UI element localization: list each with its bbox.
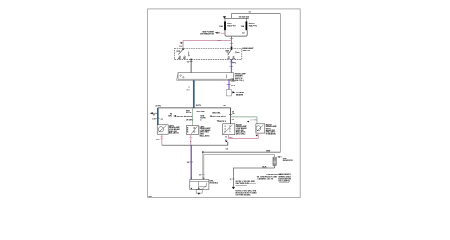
- resistor DRL: [273, 155, 293, 166]
- connector to high beams: [226, 90, 244, 97]
- svg-text:RESISTOR: RESISTOR: [283, 160, 293, 162]
- wire DK BLU dimmer low-beam output: [186, 80, 195, 108]
- svg-text:BALLAST): BALLAST): [169, 132, 179, 135]
- svg-text:HDLP FU: HDLP FU: [227, 25, 236, 27]
- annotation W/O DRL: [197, 111, 227, 121]
- svg-text:DAYTIME RUN: DAYTIME RUN: [236, 182, 250, 185]
- svg-text:HI BEAMS): HI BEAMS): [266, 132, 276, 135]
- svg-text:50 30A 30A: 50 30A 30A: [239, 16, 250, 19]
- svg-text:CAMARO 3.8L V6: CAMARO 3.8L V6: [257, 177, 274, 180]
- svg-text:BALLAST): BALLAST): [200, 134, 210, 137]
- wire LT GRN branch: [231, 117, 258, 124]
- svg-text:HID LAMPS): HID LAMPS): [278, 179, 290, 182]
- switch outputs: [190, 59, 232, 61]
- wire L3 ground drop: [225, 135, 229, 142]
- wire PPL to DRL module: [187, 145, 193, 179]
- wire resistor to ground run: [230, 165, 275, 187]
- svg-text:W/O DRL: W/O DRL: [212, 113, 221, 115]
- svg-text:MODULE: MODULE: [210, 182, 219, 184]
- wire fuse bottom rail: [225, 30, 247, 36]
- wire switch to dimmer left: [187, 59, 193, 72]
- svg-text:HDLP FU: HDLP FU: [249, 25, 258, 27]
- switch left contacts: [176, 48, 189, 60]
- svg-text:BEAMS: BEAMS: [236, 93, 244, 96]
- headlamp switch S1 box: [174, 47, 254, 59]
- wire LT GRN to left low beam: [192, 108, 194, 125]
- wire PPL dimmer high-beam output: [227, 79, 237, 90]
- wire PNK to switch: [179, 40, 232, 49]
- fuse F2: [241, 18, 258, 30]
- svg-text:ORN: ORN: [266, 151, 271, 153]
- legend right: [257, 173, 292, 182]
- wire ground bus left lamps: [162, 141, 228, 146]
- wire module line2: [204, 154, 275, 156]
- annotation W/ DRL: [161, 110, 194, 121]
- wire right main vertical: [279, 14, 281, 153]
- svg-text:LT GRN: LT GRN: [250, 119, 257, 121]
- wire pink ground bus right: [229, 137, 259, 139]
- wire module feed line1: [202, 149, 280, 154]
- svg-text:NOTE 2: NOTE 2: [219, 121, 227, 123]
- wire right lamp drop: [229, 108, 235, 124]
- node branch to power distribution: [200, 31, 225, 35]
- DRL module M1: [190, 180, 219, 190]
- wire L4 ground drop: [256, 133, 259, 139]
- fuse F1: [219, 18, 236, 30]
- svg-text:ON THIS MODEL: ON THIS MODEL: [236, 194, 252, 196]
- lamp L2 connector: [187, 126, 212, 138]
- wire low beam bus: [155, 105, 230, 108]
- dimmer switch S2 slab: [177, 73, 247, 82]
- wire PPL switch to dimmer: [230, 59, 237, 72]
- module input arrows: [190, 178, 205, 180]
- lamp L1 left headlamp: [157, 125, 180, 135]
- wire L1 ground drop: [156, 134, 163, 145]
- svg-text:15A: 15A: [241, 25, 245, 28]
- svg-text:W/ DRL MODULE: W/ DRL MODULE: [177, 116, 193, 118]
- note text block lower: [236, 181, 258, 197]
- border frame: [148, 9, 301, 198]
- module ground leg: [191, 188, 203, 195]
- wire feed to headlamp switch: [230, 36, 233, 49]
- wire battery feed top: [231, 12, 280, 14]
- lamp L3 right low beam: [223, 124, 248, 136]
- svg-text:BLK: BLK: [262, 166, 267, 168]
- wire L2 ground drop: [189, 135, 192, 146]
- wire left lamp drop: [152, 108, 159, 125]
- ground G1: [232, 187, 235, 189]
- svg-text:15A: 15A: [219, 25, 223, 28]
- svg-text:SWITCH: SWITCH: [242, 50, 250, 52]
- svg-text:W/O DRL MOD: W/O DRL MOD: [212, 116, 226, 118]
- switch right contacts: [225, 48, 240, 60]
- lamp L4 right high beam: [256, 124, 277, 136]
- node branch left: [150, 112, 158, 116]
- svg-text:20 TN: 20 TN: [155, 105, 161, 107]
- svg-text:W/O DRL: W/O DRL: [197, 111, 206, 113]
- svg-text:(ON COL.): (ON COL.): [235, 80, 245, 82]
- svg-text:DISTRIBUTION: DISTRIBUTION: [200, 33, 214, 35]
- svg-text:(W/O DRL): (W/O DRL): [236, 133, 246, 135]
- svg-text:NOTE: NOTE: [186, 112, 192, 114]
- wire module drops: [199, 152, 205, 179]
- svg-text:18 TN: 18 TN: [196, 105, 202, 107]
- wire fuse top rail: [223, 14, 250, 19]
- annotation at right drop: [217, 120, 227, 123]
